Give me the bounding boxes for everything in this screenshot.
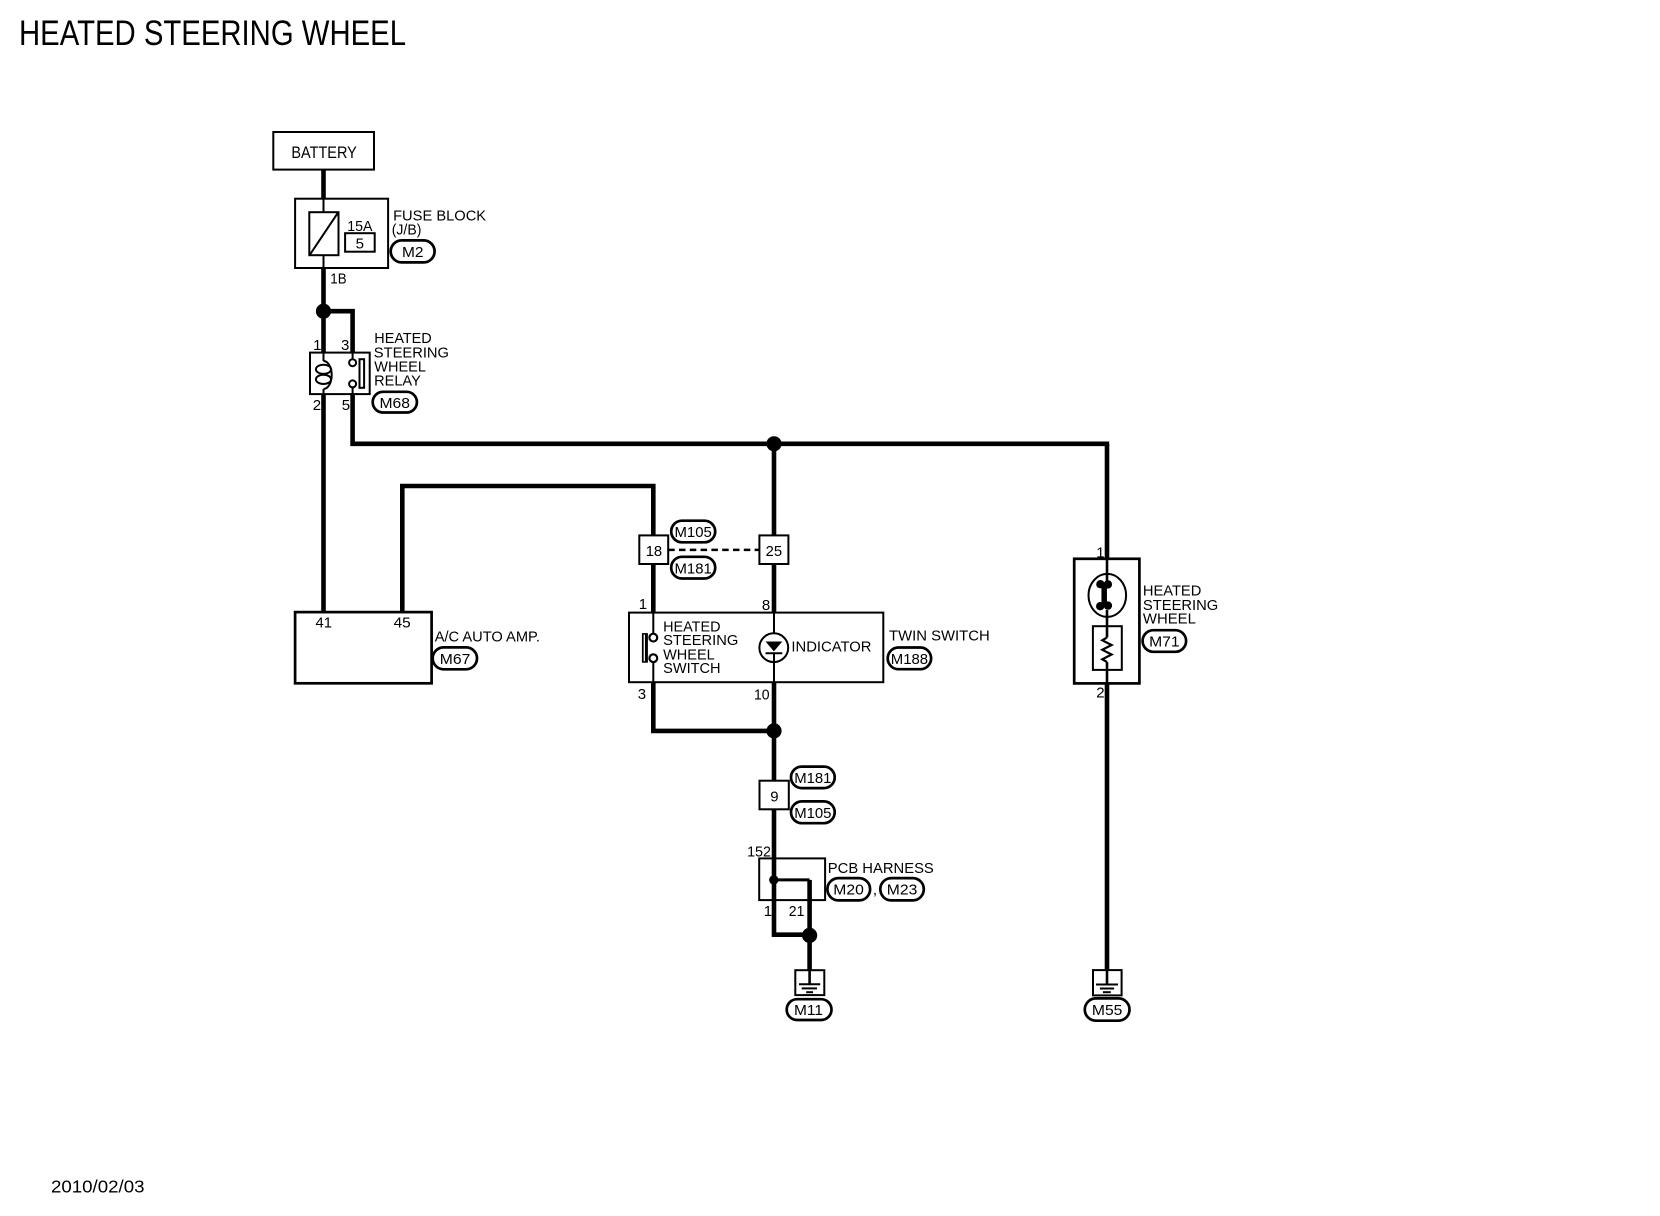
svg-text:SWITCH: SWITCH: [663, 660, 721, 677]
svg-text:5: 5: [342, 397, 350, 414]
connector oval M188: [888, 648, 931, 670]
connector oval M23: [880, 878, 924, 900]
svg-text:M181: M181: [794, 770, 831, 787]
indicator LED: [759, 613, 788, 683]
svg-text:1: 1: [313, 337, 321, 354]
A/C amp pin labels 41 45: [316, 614, 411, 631]
relay coil: [316, 353, 332, 395]
connector oval M20: [827, 878, 870, 900]
svg-text:2: 2: [1096, 685, 1104, 702]
svg-text:M105: M105: [794, 805, 831, 822]
svg-text:M71: M71: [1149, 634, 1180, 651]
ground oval M55: [1085, 998, 1130, 1020]
wire junction down to connector 25 and twin switch pin 8: [772, 444, 777, 613]
PCB pin labels 1 21: [764, 903, 805, 920]
connector oval M67: [433, 647, 477, 669]
svg-text:,: ,: [873, 882, 877, 899]
svg-text:45: 45: [394, 614, 411, 631]
connector oval M2: [391, 240, 435, 262]
svg-text:HEATED STEERING WHEEL: HEATED STEERING WHEEL: [19, 14, 406, 53]
relay pin labels 1 3 2 5: [313, 337, 350, 414]
wire main feed down to heated steering wheel pin 1: [1105, 444, 1110, 559]
svg-text:18: 18: [646, 543, 663, 560]
pin label 152: [747, 844, 771, 861]
wire relay pin 5 to heated steering wheel branch: [353, 394, 1110, 444]
A/C auto amp box M67: [295, 612, 432, 683]
connector oval M105 lower: [791, 801, 835, 823]
connector oval M181 upper: [671, 557, 715, 579]
switch pin labels 1 8 3 10: [638, 596, 770, 704]
pin label 1 (M71): [1096, 544, 1104, 561]
wire fuse block to relay pin 1: [321, 268, 326, 353]
svg-text:25: 25: [766, 543, 783, 560]
wire PCB pin 1 to ground junction: [774, 900, 810, 935]
svg-text:RELAY: RELAY: [374, 373, 421, 390]
svg-text:1: 1: [639, 596, 647, 613]
wire switch pin 8 down through pin 10 to junction: [772, 682, 777, 731]
wire battery to fuse block: [321, 170, 326, 199]
connector 18: [639, 535, 668, 564]
svg-text:M68: M68: [380, 395, 411, 412]
svg-text:2010/02/03: 2010/02/03: [51, 1177, 145, 1197]
label HEATED STEERING WHEEL (M71): [1143, 583, 1218, 628]
svg-text:A/C AUTO AMP.: A/C AUTO AMP.: [435, 629, 540, 646]
label TWIN SWITCH: [889, 628, 990, 645]
connector 25: [759, 535, 788, 564]
title HEATED STEERING WHEEL: [19, 14, 406, 53]
svg-text:M188: M188: [891, 651, 928, 668]
wire junction to ground M11: [807, 935, 812, 970]
svg-text:3: 3: [638, 686, 646, 703]
label HEATED STEERING WHEEL RELAY: [374, 330, 449, 390]
svg-text:8: 8: [762, 597, 770, 614]
dashed link between connectors 18 and 25: [668, 549, 759, 552]
PCB harness internal wiring: [769, 858, 810, 900]
svg-text:9: 9: [770, 789, 778, 806]
junction node at 1B: [316, 304, 331, 319]
fuse block box M2: [295, 199, 388, 268]
heater resistor: [1093, 626, 1122, 683]
wire junction to connector 9 and PCB harness: [772, 731, 777, 859]
junction node on main feed: [766, 436, 781, 451]
connector 9: [760, 781, 789, 810]
pin label 1B: [330, 271, 346, 288]
svg-text:1: 1: [764, 903, 772, 920]
heated steering wheel switch symbol: [642, 613, 657, 683]
connector oval M181 lower: [791, 767, 835, 789]
svg-text:2: 2: [313, 397, 321, 414]
wire A/C amp pin 45 to connector 18 and switch pin 1: [402, 486, 653, 613]
comma between ovals: [873, 882, 877, 899]
svg-text:M2: M2: [402, 244, 424, 261]
svg-text:M11: M11: [794, 1002, 823, 1019]
pin label 2 (M71): [1096, 685, 1104, 702]
date stamp: [51, 1177, 145, 1197]
wire branch junction to relay pin 3: [324, 311, 353, 352]
battery: [273, 132, 374, 170]
ground M11: [795, 970, 824, 995]
svg-text:M20: M20: [833, 882, 864, 899]
label PCB HARNESS: [828, 860, 934, 877]
wire heated steering wheel pin 2 to ground M55: [1105, 683, 1110, 970]
svg-text:PCB HARNESS: PCB HARNESS: [828, 860, 934, 877]
relay contact: [349, 353, 364, 395]
svg-text:M55: M55: [1092, 1002, 1123, 1019]
label A/C AUTO AMP.: [435, 629, 540, 646]
svg-text:INDICATOR: INDICATOR: [791, 639, 871, 656]
svg-text:M181: M181: [675, 560, 712, 577]
connector oval M68: [373, 392, 417, 413]
svg-text:M67: M67: [440, 651, 471, 668]
ground M55: [1093, 970, 1122, 995]
svg-text:10: 10: [754, 687, 770, 704]
connector oval M105 upper: [671, 521, 715, 543]
svg-text:M105: M105: [675, 524, 712, 541]
heated steering wheel box M71: [1074, 559, 1139, 684]
svg-text:TWIN SWITCH: TWIN SWITCH: [889, 628, 990, 645]
svg-text:(J/B): (J/B): [392, 222, 422, 239]
svg-text:41: 41: [316, 614, 333, 631]
label INDICATOR: [791, 639, 871, 656]
fuse 15A: [309, 199, 374, 268]
junction node below twin switch: [766, 723, 781, 738]
label HEATED STEERING WHEEL SWITCH: [663, 619, 738, 678]
svg-text:1B: 1B: [330, 271, 346, 288]
steering wheel icon: [1089, 559, 1127, 626]
junction node above ground M11: [802, 928, 817, 943]
svg-text:5: 5: [356, 236, 364, 253]
svg-text:WHEEL: WHEEL: [1143, 610, 1196, 627]
svg-text:M23: M23: [887, 882, 918, 899]
relay box M68: [310, 353, 370, 395]
ground oval M11: [787, 999, 832, 1020]
svg-text:BATTERY: BATTERY: [291, 144, 356, 162]
label FUSE BLOCK (J/B): [392, 207, 486, 238]
connector oval M71: [1143, 630, 1187, 652]
svg-text:3: 3: [341, 337, 349, 354]
wire switch pin 3 to junction: [653, 682, 774, 731]
twin switch box M188: [629, 613, 883, 683]
svg-text:21: 21: [789, 903, 805, 920]
wire relay pin 2 to A/C auto amp pin 41: [321, 394, 326, 612]
PCB harness box: [759, 858, 825, 900]
wire PCB pin 21 to ground junction: [807, 900, 812, 935]
